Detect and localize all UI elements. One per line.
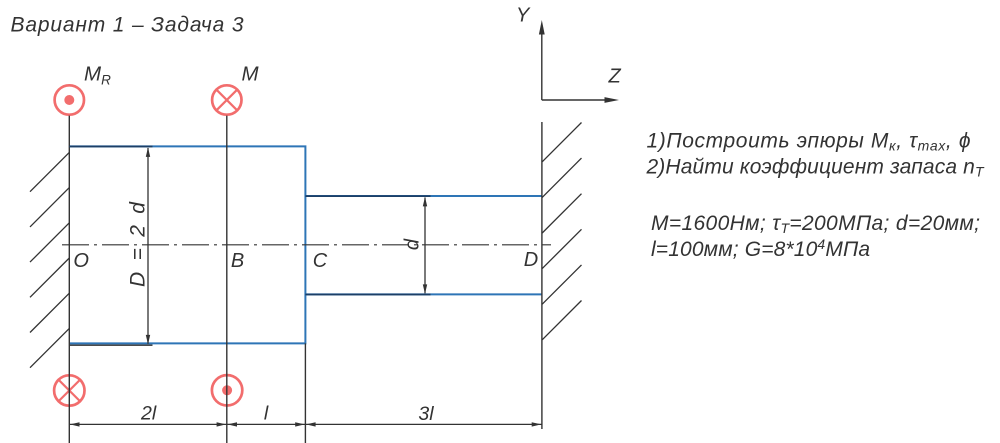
moment circle MR (dot) top-left: [55, 85, 84, 114]
svg-text:l: l: [264, 403, 269, 425]
dimension d extension lines: [305, 196, 430, 294]
wall hatching left: [30, 152, 69, 367]
line at B: [226, 116, 228, 443]
svg-text:Z: Z: [608, 66, 622, 88]
svg-text:d: d: [402, 238, 424, 250]
dimension d line: [424, 198, 426, 294]
svg-text:D: D: [524, 249, 538, 271]
svg-text:MR: MR: [84, 63, 111, 88]
arrows l: [228, 422, 238, 426]
svg-text:1)Построить эпюры Мк, τmax,: 1)Построить эпюры Мк, τmax, ϕ: [647, 129, 971, 153]
bottom dimension line: [69, 423, 542, 425]
svg-text:l=100мм; G=8*104МПа: l=100мм; G=8*104МПа: [651, 236, 870, 261]
arrows 2l: [70, 422, 80, 426]
svg-text:C: C: [313, 250, 328, 272]
svg-text:D=2d: D=2d: [127, 201, 150, 287]
left wall line: [68, 116, 70, 443]
svg-text:Вариант 1 – Задача 3: Вариант 1 – Задача 3: [11, 14, 244, 37]
svg-text:M=1600Нм; τТ=200МПа; d=20мм;: M=1600Нм; τТ=200МПа; d=20мм;: [651, 212, 980, 236]
svg-text:M: M: [242, 63, 260, 86]
svg-text:B: B: [231, 250, 244, 272]
svg-text:2l: 2l: [140, 403, 157, 425]
moment circle (dot) bottom at B: [212, 375, 242, 405]
label d (rotated): [402, 238, 424, 250]
svg-text:O: O: [73, 250, 89, 272]
axis Z: [542, 99, 606, 101]
line at C (below shaft): [304, 343, 306, 443]
center axis line: [62, 244, 551, 246]
svg-text:3l: 3l: [418, 403, 434, 425]
shaft outline (blue) small section: [305, 196, 542, 294]
dimension D=2d extension lines: [69, 146, 152, 148]
svg-text:Y: Y: [516, 5, 531, 27]
shaft outline (blue) big section: [69, 146, 305, 343]
label D=2d (rotated): [127, 201, 150, 287]
svg-text:2)Найти коэффициент запаса nТ: 2)Найти коэффициент запаса nТ: [646, 156, 985, 180]
dimension D=2d line: [147, 148, 149, 344]
wall hatching right: [542, 123, 581, 340]
axis Y: [541, 33, 543, 100]
arrows 3l: [306, 422, 316, 426]
right wall line: [541, 122, 543, 429]
moment circle (cross) bottom-left: [54, 375, 84, 405]
moment circle M (cross) top at B: [212, 85, 241, 114]
